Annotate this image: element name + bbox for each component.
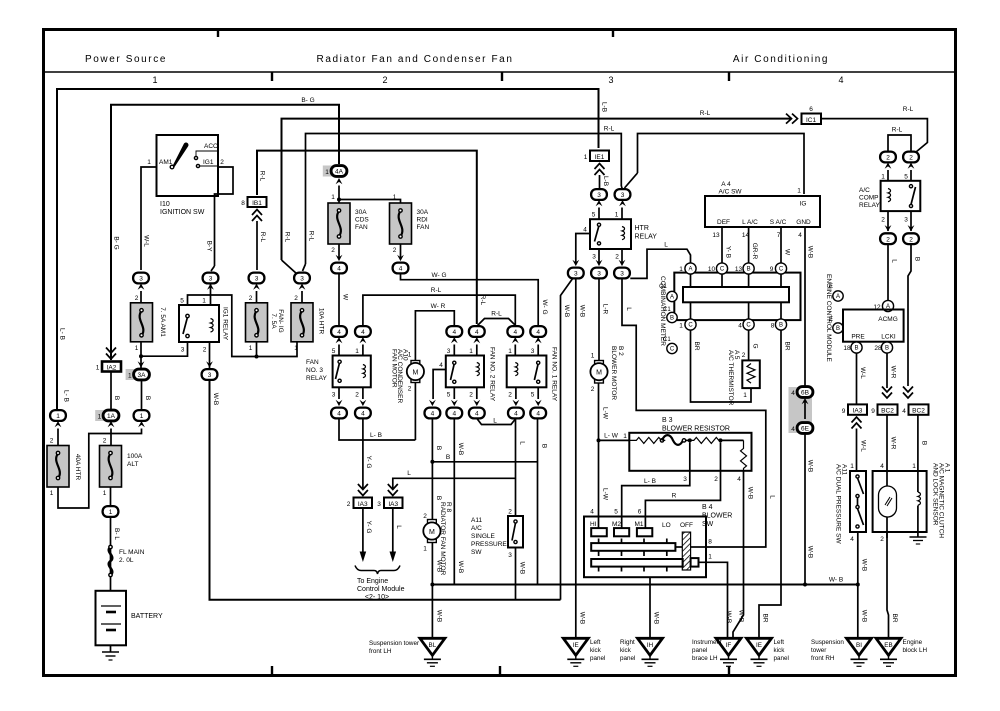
svg-text:M: M <box>412 369 418 376</box>
svg-text:3: 3 <box>208 372 212 379</box>
relay IG1 RELAY box <box>179 305 219 342</box>
svg-text:2: 2 <box>909 155 913 162</box>
wire W-B resistor pin4 down to IF ground <box>733 471 744 638</box>
svg-text:BC2: BC2 <box>881 408 894 415</box>
svg-text:4: 4 <box>361 411 365 418</box>
svg-text:1: 1 <box>591 353 595 360</box>
svg-text:L- B: L- B <box>370 432 382 439</box>
arrow up into 2 oval pin1 <box>885 163 892 169</box>
ignition IG1 contact circle <box>196 164 199 167</box>
svg-text:RDI: RDI <box>417 217 428 224</box>
bottom border tick 1 <box>271 666 273 674</box>
svg-text:7: 7 <box>777 232 781 239</box>
svg-text:LO: LO <box>662 522 671 529</box>
svg-text:4: 4 <box>590 509 594 516</box>
fuse 30A CDS FAN <box>328 203 350 244</box>
svg-text:1: 1 <box>423 546 427 553</box>
svg-text:2: 2 <box>714 476 718 483</box>
junction dot 6E wire to gather line <box>803 583 807 587</box>
svg-text:13: 13 <box>712 232 720 239</box>
svg-text:Instrument: Instrument <box>692 639 722 646</box>
header tick divider 1 <box>217 28 219 37</box>
svg-text:IA3: IA3 <box>388 501 398 508</box>
svg-text:30A: 30A <box>355 209 367 216</box>
svg-text:W-B: W-B <box>807 460 814 473</box>
svg-text:L-B: L-B <box>602 176 609 186</box>
ignition switch I10 box <box>157 135 219 196</box>
svg-text:6E: 6E <box>801 426 810 433</box>
arrow up into 6B from below <box>802 398 809 404</box>
wire L horizontal from A11 feed to IA3 no.3 <box>393 478 516 489</box>
svg-text:2: 2 <box>347 501 351 508</box>
connector IA3 box no.2 <box>354 498 373 509</box>
arrow up into oval relay1 pin1 <box>512 337 519 343</box>
junction dot B net <box>430 460 434 464</box>
node 3 oval below IG1 relay <box>202 369 218 380</box>
svg-text:BR: BR <box>891 613 898 622</box>
svg-text:9: 9 <box>871 408 875 415</box>
svg-text:panel: panel <box>692 647 707 654</box>
svg-text:W-B: W-B <box>579 305 586 318</box>
svg-text:4: 4 <box>452 411 456 418</box>
component A1 A/C MAGNETIC CLUTCH AND LOCK SENSOR box <box>873 471 927 532</box>
svg-text:Suspension tower: Suspension tower <box>369 640 419 647</box>
svg-text:W-L: W-L <box>143 235 150 247</box>
tick marks row2 <box>598 551 600 556</box>
connector 4A oval <box>331 166 347 177</box>
switch A11 A/C SINGLE PRESSURE SW box <box>508 516 523 548</box>
svg-text:4: 4 <box>513 329 517 336</box>
svg-text:W- R: W- R <box>431 303 446 310</box>
node 3 oval above HTR relay pin1 <box>615 189 631 200</box>
ignition ACC contact circle <box>194 156 197 159</box>
svg-text:W: W <box>342 294 349 301</box>
wires ovals to comp relay top <box>887 170 889 181</box>
HTR relay pin4 stub <box>576 234 590 264</box>
arrow up into 3 oval (FAN-IG) <box>253 284 260 290</box>
svg-text:9: 9 <box>842 408 846 415</box>
svg-text:4: 4 <box>337 329 341 336</box>
arrow down into 2 oval pin2 <box>885 225 892 231</box>
svg-text:BC2: BC2 <box>912 408 925 415</box>
svg-text:8: 8 <box>241 200 245 207</box>
wire W-B GND down to 6B connector <box>804 227 806 387</box>
arrow down into 4 oval below RDI <box>397 255 404 261</box>
meter bottom pin C circle <box>685 319 696 330</box>
connector BC2 box no2 <box>909 404 929 414</box>
svg-text:Left: Left <box>590 639 601 646</box>
svg-text:4: 4 <box>583 227 587 234</box>
svg-text:6: 6 <box>638 509 642 516</box>
wire BR from clutch pin2 to EB ground <box>887 532 889 638</box>
wire 1 oval to 40A HTR fuse <box>57 429 59 446</box>
arrow down into 3 oval below IG1 relay <box>206 361 213 367</box>
ground IF instrument panel brace LH <box>716 638 741 666</box>
connector 6B oval <box>797 387 813 398</box>
node 2 oval above comp relay pin1 <box>880 152 896 163</box>
ECM PRE pin B circle <box>851 342 862 353</box>
svg-text:B 2: B 2 <box>617 346 624 356</box>
arrow down into 2 oval pin3 <box>908 225 915 231</box>
connector IA3 box no.3 <box>384 498 403 509</box>
gray tag behind 1A <box>95 410 105 421</box>
svg-text:BLOWER: BLOWER <box>702 513 732 520</box>
svg-text:3: 3 <box>608 75 613 85</box>
svg-text:A/C: A/C <box>471 525 482 532</box>
svg-text:M: M <box>596 370 602 377</box>
svg-text:L-R: L-R <box>602 304 609 315</box>
node 4 oval below relay2 pin4 <box>425 408 441 419</box>
svg-text:FAN: FAN <box>355 224 368 231</box>
svg-text:R-L: R-L <box>479 295 486 306</box>
svg-text:4: 4 <box>536 411 540 418</box>
svg-text:W-B: W-B <box>861 610 868 623</box>
ground BI suspension tower front RH <box>847 638 872 666</box>
ground IE left kick panel <box>563 638 588 666</box>
svg-text:FAN MOTOR: FAN MOTOR <box>391 349 398 388</box>
node 4 oval below RDI fuse <box>393 263 409 274</box>
arrow up into oval relay1 pin3 <box>535 337 542 343</box>
svg-text:To Engine: To Engine <box>357 578 388 585</box>
arrow up into 3 oval (AM1) <box>138 284 145 290</box>
svg-text:SW: SW <box>471 549 482 556</box>
arrow up into 1 oval <box>138 421 145 427</box>
svg-text:L- B: L- B <box>63 390 70 402</box>
svg-text:1: 1 <box>294 345 298 352</box>
svg-text:4A: 4A <box>335 169 344 176</box>
blower resistor box <box>629 433 751 471</box>
svg-text:IG1: IG1 <box>203 159 214 166</box>
tick marks row1 <box>598 539 600 544</box>
wire B-G top y=104.7 from ignition drop x=111 to 4A drop x=339 <box>111 105 339 360</box>
svg-text:5: 5 <box>332 348 336 355</box>
svg-text:IF: IF <box>726 642 732 649</box>
wire L-B below IE1 arrow to 3 oval <box>599 175 601 189</box>
arrow up into 3 oval (10A HTR) <box>299 284 306 290</box>
svg-text:brace LH: brace LH <box>692 655 718 662</box>
svg-text:4: 4 <box>431 411 435 418</box>
svg-text:L: L <box>625 307 632 311</box>
svg-text:1: 1 <box>743 392 747 399</box>
wire R-L arch jog between pin1 ovals <box>478 319 516 326</box>
combination meter box <box>674 273 800 321</box>
clutch internal ground <box>910 536 927 538</box>
svg-text:Right: Right <box>620 639 635 646</box>
arrow down into 4 oval below CDS <box>336 255 343 261</box>
svg-text:FAN NO. 2 RELAY: FAN NO. 2 RELAY <box>489 347 496 402</box>
wire 3 oval to 7.5A AM1 fuse <box>140 291 142 303</box>
wire B below IA2 to 1A oval <box>110 372 112 411</box>
svg-text:AND LOCK SENSOR: AND LOCK SENSOR <box>932 463 939 526</box>
chevron arrow down into IA2 <box>106 348 116 360</box>
svg-text:IE: IE <box>756 642 762 649</box>
svg-text:PRESSURE: PRESSURE <box>471 541 507 548</box>
wire resistor pin2 down and left to blower switch M1 <box>645 442 720 528</box>
svg-text:BI: BI <box>856 642 862 649</box>
svg-text:BLOWER RESISTOR: BLOWER RESISTOR <box>662 426 730 433</box>
svg-text:2: 2 <box>591 386 595 393</box>
svg-text:1: 1 <box>679 266 683 273</box>
fusible link FL MAIN 2.0L <box>109 547 112 575</box>
junction dot below 4A <box>337 198 341 202</box>
dual pressure contacts and blades <box>856 475 859 478</box>
vertical resistor at right <box>741 440 747 470</box>
svg-text:1: 1 <box>331 194 335 201</box>
node 4 oval below relay2 pin5 <box>446 408 462 419</box>
svg-text:1: 1 <box>393 194 397 201</box>
switch B4 BLOWER SW box <box>584 517 706 578</box>
svg-text:4: 4 <box>838 75 843 85</box>
svg-text:40A HTR: 40A HTR <box>74 454 81 481</box>
svg-text:4: 4 <box>337 411 341 418</box>
svg-text:7. 5A AM1: 7. 5A AM1 <box>159 307 166 337</box>
svg-text:3: 3 <box>508 552 512 559</box>
svg-text:2: 2 <box>615 254 619 261</box>
svg-text:1: 1 <box>140 413 144 420</box>
svg-text:10A HTR: 10A HTR <box>318 308 325 335</box>
svg-text:4: 4 <box>475 411 479 418</box>
svg-text:FL MAIN: FL MAIN <box>119 549 145 556</box>
svg-text:R-L: R-L <box>259 171 266 182</box>
wire Y-B DEF to meter C10 <box>721 227 723 263</box>
connector IC1 box <box>802 114 822 125</box>
fuse 10A HTR <box>291 303 313 342</box>
svg-text:2: 2 <box>742 352 746 359</box>
svg-text:3: 3 <box>377 501 381 508</box>
svg-text:6B: 6B <box>801 390 809 397</box>
svg-text:R-L: R-L <box>308 231 315 242</box>
svg-text:A11: A11 <box>471 517 482 524</box>
svg-text:BR: BR <box>784 341 791 350</box>
svg-text:1: 1 <box>615 212 619 219</box>
svg-text:GND: GND <box>796 219 811 226</box>
wire W S A/C to meter C9 <box>780 227 782 263</box>
fuse 100A ALT <box>100 446 122 488</box>
W-B gather line y=584.5 to dual pressure SW junction <box>432 584 858 586</box>
svg-text:B 4: B 4 <box>702 504 713 511</box>
resistor element row <box>629 437 665 443</box>
relay1 bottom wires <box>515 387 517 399</box>
A11 single pressure contacts and blade <box>514 520 517 523</box>
pin1 tab <box>691 558 699 567</box>
svg-text:R-L: R-L <box>892 127 903 134</box>
bar 2 <box>591 559 683 567</box>
arrow up into oval relay2 pin1 <box>473 337 480 343</box>
svg-text:4: 4 <box>361 329 365 336</box>
wire 3 oval down to IG1 relay pin 1 <box>210 284 212 306</box>
svg-text:3: 3 <box>300 276 304 283</box>
svg-text:B: B <box>435 496 442 500</box>
arrow down into oval <box>513 400 520 406</box>
wire from 4A down to CDS fuse and branch to RDI fuse <box>338 186 340 204</box>
diagonal x=305.5 into 3 oval <box>303 264 306 271</box>
meter pin C circle (DEF) <box>716 263 727 274</box>
relay3 coil <box>363 365 366 378</box>
ECM ACMG box <box>843 310 904 342</box>
svg-text:1: 1 <box>797 188 801 195</box>
switch A11 A/C DUAL PRESSURE SW box <box>850 471 866 532</box>
node 2 oval below comp relay pin2 <box>880 233 896 244</box>
svg-text:2: 2 <box>508 392 512 399</box>
node 3 oval above IG1 relay pin1 <box>203 273 219 284</box>
tick marks row3 <box>598 567 600 572</box>
svg-text:L: L <box>407 470 411 477</box>
svg-text:4: 4 <box>791 426 795 433</box>
svg-text:B: B <box>446 454 450 461</box>
svg-text:A: A <box>670 295 674 301</box>
connector 6E oval <box>797 423 813 434</box>
arrow down into oval <box>473 400 480 406</box>
svg-text:B: B <box>914 257 921 261</box>
node 4 oval above relay1 pin1 <box>507 326 523 337</box>
arrow up into oval relay3 pin5 <box>336 337 343 343</box>
gray tag behind 4A <box>323 166 333 177</box>
svg-text:B: B <box>113 396 120 400</box>
svg-text:IG: IG <box>800 201 807 208</box>
svg-text:R-L: R-L <box>903 106 914 113</box>
wire Y-G from relay3 pin2 oval down to IA3 <box>362 418 364 489</box>
wire IG1 relay pin3 down-left to AM1 fuse junction <box>141 342 188 356</box>
svg-text:L- B: L- B <box>644 478 656 485</box>
ignition AM1 contact circle <box>170 165 174 169</box>
svg-text:PRE: PRE <box>851 334 865 341</box>
svg-text:B- L: B- L <box>113 528 120 540</box>
connector IB1 box <box>248 197 267 207</box>
svg-text:2: 2 <box>909 236 913 243</box>
junction dot L-W <box>597 438 601 442</box>
ground IH right kick panel <box>638 638 663 666</box>
wire B from relay2 pin4 oval down to R8 motor pin2 <box>431 418 433 519</box>
wire W-L from AM1 down to 3 oval <box>141 167 157 270</box>
wire R-L n-jumper between 2 ovals <box>888 135 911 152</box>
svg-text:2: 2 <box>469 392 473 399</box>
svg-text:2: 2 <box>423 513 427 520</box>
svg-text:B: B <box>836 326 840 332</box>
svg-text:1: 1 <box>508 348 512 355</box>
diagonal x=621.3 into 3 oval <box>621 186 622 189</box>
node 4 oval above relay3 pin1 <box>355 326 371 337</box>
arrow down into oval <box>429 400 436 406</box>
connector BC2 box no1 <box>878 404 898 414</box>
svg-text:W-B: W-B <box>457 443 464 456</box>
wire W-B below dual pressure to junction dot and BI ground <box>857 532 859 638</box>
svg-text:4: 4 <box>737 476 741 483</box>
wire L from HTR pin2 oval zigzag to blower switch pin 8 <box>622 278 766 547</box>
curly brace to engine control module <box>355 566 400 575</box>
svg-text:W- B: W- B <box>829 577 843 584</box>
node 3 oval below HTR pin2 <box>614 268 630 279</box>
svg-text:1: 1 <box>128 373 132 380</box>
wire W-B below A11 to bus <box>515 548 517 600</box>
junction dot W-B gather <box>430 583 434 587</box>
svg-text:Radiator Fan and Condenser Fan: Radiator Fan and Condenser Fan <box>317 54 514 65</box>
svg-text:BR: BR <box>762 613 769 622</box>
meter bottom pin B circle <box>775 319 786 330</box>
svg-text:Power Source: Power Source <box>85 54 167 65</box>
IG1 relay switch blade <box>183 317 188 334</box>
svg-text:L: L <box>395 525 402 529</box>
svg-text:3: 3 <box>904 217 908 224</box>
arrow up into 3 oval HTR pin5 <box>596 200 603 206</box>
svg-text:L A/C: L A/C <box>742 219 758 226</box>
wires ovals to HTR relay top <box>598 208 600 220</box>
svg-text:2: 2 <box>331 247 335 254</box>
meter internal stubs bottom <box>690 302 692 319</box>
svg-text:9: 9 <box>770 266 774 273</box>
chevron arrow right into IC1 <box>786 114 798 124</box>
wire R-L y=135 right segment from x=637.5 to A/C SW pin1 x=804 <box>638 134 805 195</box>
svg-text:W-L: W-L <box>859 367 866 379</box>
svg-text:W-B: W-B <box>212 393 219 406</box>
svg-text:HTR: HTR <box>635 225 649 232</box>
motor R8 RADIATOR FAN MOTOR <box>423 520 440 543</box>
svg-text:4: 4 <box>439 362 443 369</box>
comp relay coil <box>888 189 891 202</box>
svg-text:FAN NO. 1 RELAY: FAN NO. 1 RELAY <box>551 347 558 402</box>
solid arrow end to ECM 2 <box>390 552 397 563</box>
gray band behind 6B/6E <box>789 387 813 433</box>
chevron arrow up into IB1 <box>252 210 262 222</box>
svg-text:2: 2 <box>393 247 397 254</box>
svg-text:IH: IH <box>647 642 654 649</box>
arrow up into left 1 oval <box>55 421 62 427</box>
ignition lever wedge <box>173 143 189 168</box>
relay3 bottom wires <box>338 387 340 399</box>
wire B-Y from IG1 pin2 to 3 oval above IG1 relay <box>215 167 234 266</box>
wire L dip jog between pin2 ovals <box>477 418 516 424</box>
wire R-L y=118.6 from x=281.5 to IC1 <box>282 119 792 260</box>
chevron arrow down into IA3 no.2 <box>358 484 368 496</box>
wire RDI fuse pin2 down to 4 oval <box>400 244 402 258</box>
lock sensor stadium <box>879 486 897 517</box>
svg-text:A/C: A/C <box>859 187 870 194</box>
svg-text:5: 5 <box>904 174 908 181</box>
svg-text:B: B <box>885 346 889 352</box>
wire W-B from 3 oval to bottom bus <box>210 380 561 600</box>
svg-text:1: 1 <box>103 490 107 497</box>
wire between 6B and 6E <box>804 400 806 419</box>
arrow down into oval <box>360 400 367 406</box>
svg-text:W-B: W-B <box>457 561 464 574</box>
svg-text:1: 1 <box>408 352 412 359</box>
svg-text:4: 4 <box>536 329 540 336</box>
svg-text:W-B: W-B <box>653 612 660 625</box>
svg-text:2: 2 <box>355 392 359 399</box>
relay2 coil <box>477 363 480 376</box>
node 4 oval below relay3 pin2 <box>355 408 371 419</box>
svg-text:W- G: W- G <box>541 299 548 314</box>
node 4 oval above relay2 pin3 <box>446 326 462 337</box>
svg-text:CDS: CDS <box>355 217 369 224</box>
wire from 1 oval arrow to ALT junction <box>111 429 142 434</box>
svg-text:1: 1 <box>50 490 54 497</box>
svg-text:IA2: IA2 <box>107 365 117 372</box>
svg-text:B: B <box>435 446 442 450</box>
wire L from relay1 pin2 oval down to A11 single pressure SW <box>515 418 517 516</box>
svg-text:1: 1 <box>56 413 60 420</box>
bar 1 <box>591 543 675 551</box>
svg-text:W- G: W- G <box>431 272 446 279</box>
svg-text:R-L: R-L <box>259 232 266 243</box>
svg-text:2: 2 <box>886 236 890 243</box>
diagonal into oval <box>211 266 215 271</box>
svg-text:1: 1 <box>202 298 206 305</box>
svg-text:LCKI: LCKI <box>881 334 896 341</box>
svg-text:W-B: W-B <box>436 610 443 623</box>
svg-text:M2: M2 <box>612 521 621 528</box>
wire from switch bottom to IH ground <box>649 577 651 638</box>
svg-text:1: 1 <box>109 509 113 516</box>
